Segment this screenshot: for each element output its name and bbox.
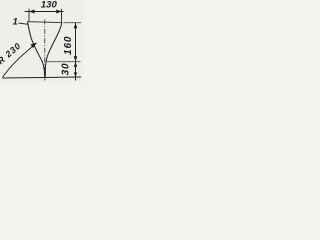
dimension line 30 with tail below base	[75, 62, 77, 81]
svg-text:1: 1	[13, 17, 18, 28]
right blade edge	[45, 23, 62, 77]
arrowhead 160 bottom	[74, 56, 78, 61]
svg-text:130: 130	[41, 0, 58, 10]
arrowhead 160 top	[74, 23, 78, 28]
extension line left	[28, 9, 30, 22]
dimension line 130	[25, 11, 64, 13]
svg-text:160: 160	[63, 36, 74, 55]
svg-text:30: 30	[60, 63, 71, 76]
base line	[3, 77, 82, 78]
arrowhead left of 130 dim	[29, 10, 35, 14]
arrowhead 30 top	[74, 62, 77, 67]
centerline (dash-dot)	[44, 20, 46, 81]
extension line right	[61, 9, 63, 23]
paper background	[0, 0, 83, 82]
leader line R230	[3, 44, 37, 78]
arrowhead 30 bottom	[74, 72, 77, 77]
dimension line 160	[75, 23, 77, 62]
arrowhead right of 130 dim	[56, 10, 62, 14]
arrowhead R230	[31, 43, 38, 49]
left blade edge	[28, 22, 45, 77]
extension line at top right for 160	[64, 22, 82, 24]
top edge of share	[28, 22, 63, 23]
blade tip blob	[44, 72, 45, 77]
leader for item 1	[19, 23, 29, 24]
level line (160/30 boundary)	[47, 61, 81, 63]
